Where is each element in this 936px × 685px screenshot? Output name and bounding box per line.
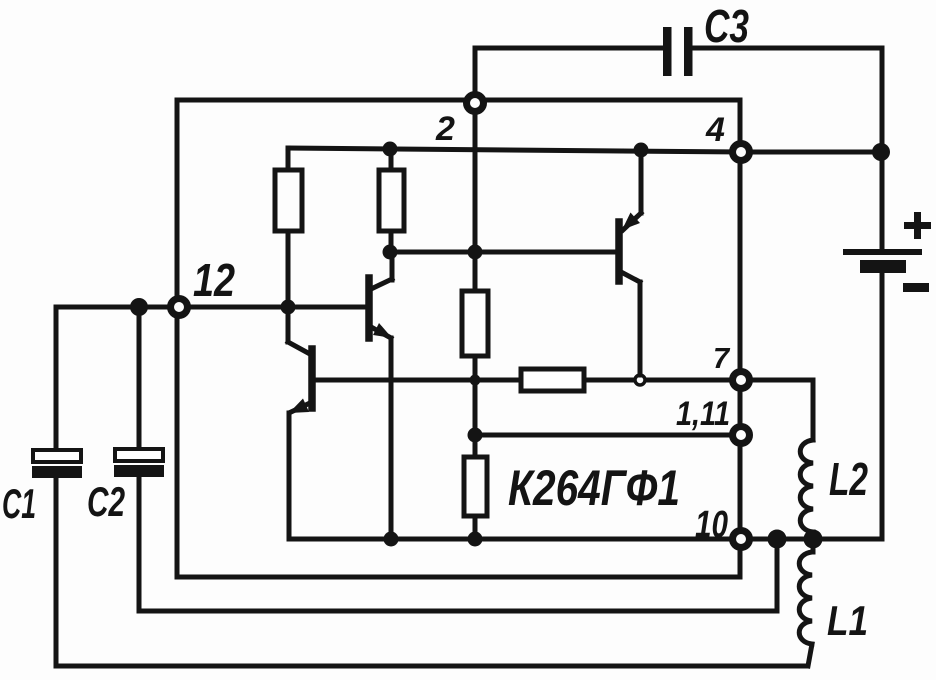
svg-text:1,11: 1,11 — [676, 395, 730, 433]
IC К264ГФ1 body outline — [177, 100, 740, 577]
wire: C2 top lead — [137, 307, 142, 449]
svg-text:C1: C1 — [2, 480, 36, 527]
inductor L2 — [800, 440, 813, 539]
wire: C1 top lead — [54, 307, 59, 450]
transistor T4 emitter lead from supply rail — [623, 150, 641, 230]
wire: center column from node 2 down — [473, 113, 478, 291]
node: junction C2-return on pin 10 rail — [768, 530, 787, 549]
transistor T2 emitter — [289, 403, 310, 539]
wire: C2 return rail — [139, 609, 777, 614]
node: R2 bottom junction on base rail — [383, 245, 398, 260]
svg-text:L1: L1 — [827, 597, 868, 644]
resistor R1 — [275, 170, 302, 231]
transistor T1 collector — [371, 252, 392, 289]
svg-text:К264ГФ1: К264ГФ1 — [508, 460, 680, 516]
battery minus sign — [903, 283, 929, 292]
transistor T2 collector — [288, 342, 310, 354]
wire: node 2 up to C3 rail — [473, 48, 478, 93]
wire: pin 10 external rail to battery — [752, 537, 882, 542]
resistor R5 — [464, 457, 487, 516]
wire: pin 1,11 rail — [475, 433, 730, 438]
wire: pin 7 rail from T2 base — [315, 378, 521, 383]
node: junction R1/T2 on pin-12 rail — [281, 300, 296, 315]
wire: C3 rail right segment — [692, 46, 882, 51]
wire: C2 bottom lead down — [137, 477, 142, 611]
wire: bottom return rail to L1 — [56, 664, 807, 669]
battery GB1 negative plate — [860, 260, 906, 273]
transistor T2 emitter arrow — [289, 399, 309, 414]
capacitor C1 — [32, 450, 82, 478]
IC pin 12 circle — [171, 299, 188, 316]
node: junction center column pin-1,11 rail — [468, 428, 483, 443]
battery GB1 positive plate — [843, 249, 922, 255]
capacitor C3 plates — [663, 27, 693, 76]
capacitor C2 — [114, 449, 164, 477]
wire: resistor R1 top lead — [286, 148, 291, 170]
IC pin 1,11 circle — [733, 427, 750, 444]
transistor T1 base bar — [365, 278, 373, 338]
node: center column junction bottom rail — [468, 532, 483, 547]
transistor T1 emitter arrow — [373, 323, 392, 338]
node: R2 top junction — [383, 142, 398, 157]
transistor T2 base bar — [308, 349, 316, 408]
wire: battery negative lead down — [880, 273, 885, 539]
svg-text:10: 10 — [695, 504, 728, 546]
node: junction L1/L2 on pin 10 rail — [804, 530, 823, 549]
wire: internal rail pin 4 (top supply rail) — [288, 148, 741, 152]
inductor L1 — [799, 539, 813, 666]
resistor R4 — [521, 369, 584, 391]
IC pin 2 circle — [467, 95, 484, 112]
transistor T4 collector — [621, 272, 640, 375]
node: junction battery top — [872, 143, 890, 161]
node: junction C2 top — [130, 298, 148, 316]
transistor T4 emitter arrow (PNP) — [622, 213, 640, 231]
IC pin 4 circle — [733, 144, 750, 161]
IC pin 7 circle — [733, 372, 750, 389]
svg-text:C2: C2 — [87, 478, 125, 525]
wire: C3 rail left segment — [475, 46, 664, 51]
wire: center column R3 bottom to R5 top — [473, 356, 478, 457]
wire: pin 4 to battery junction — [752, 150, 882, 155]
svg-text:7: 7 — [713, 343, 731, 375]
battery plus sign — [904, 212, 931, 239]
wire: resistor R1 bottom lead down to T2 collector — [286, 231, 291, 342]
wire: pin 7 rail right of R4 — [584, 378, 730, 383]
svg-text:2: 2 — [435, 110, 455, 148]
IC pin 10 circle — [733, 531, 750, 548]
transistor T4 base bar — [615, 222, 623, 281]
wire: C1 bottom lead down — [54, 478, 59, 666]
svg-text:12: 12 — [193, 254, 235, 306]
wire: battery positive lead — [880, 152, 885, 249]
wire: C2 return riser to pin 10 rail — [775, 539, 780, 611]
wire: internal bottom rail to pin 10 — [289, 537, 730, 542]
wire: pin 7 external to L2 — [752, 380, 813, 440]
wire: resistor R2 top lead — [389, 148, 394, 170]
svg-text:C3: C3 — [704, 0, 749, 52]
node: T1 emitter junction bottom rail — [384, 532, 399, 547]
node: T4 collector open junction — [635, 375, 645, 385]
node: junction center column on base rail — [468, 245, 483, 260]
wire: right drop from C3 rail to pin-4 rail — [880, 48, 885, 152]
wire: pin 12 external to C1/C2 — [56, 305, 168, 310]
node: junction center column pin-7 rail — [470, 375, 481, 386]
svg-text:4: 4 — [705, 111, 725, 149]
svg-text:L2: L2 — [829, 453, 868, 505]
resistor R2 — [379, 170, 404, 231]
transistor T1 emitter — [371, 327, 391, 539]
wire: pin 12 base rail to T1 — [179, 305, 366, 310]
resistor R3 — [462, 291, 488, 356]
node: T4 emitter junction on supply rail — [634, 143, 649, 158]
wire: R5 bottom lead — [473, 516, 478, 539]
wire: internal base rail y=252 — [390, 250, 616, 255]
wire: resistor R2 bottom lead — [389, 231, 394, 253]
